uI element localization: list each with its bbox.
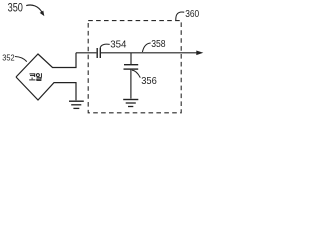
hangul text 코일 inside coil block bbox=[29, 73, 41, 80]
output arrowhead (node 358 line) bbox=[196, 51, 203, 56]
svg-text:350: 350 bbox=[8, 0, 24, 14]
coil block 352 (diamond body) bbox=[16, 53, 76, 101]
leader for 360 bbox=[176, 12, 184, 20]
wire from capacitor 356 to ground bbox=[130, 70, 132, 99]
arrow for 350 bbox=[26, 5, 42, 12]
svg-text:354: 354 bbox=[110, 39, 127, 50]
capacitor 356 bbox=[124, 65, 139, 69]
leader for 356 bbox=[132, 70, 140, 78]
svg-text:356: 356 bbox=[141, 75, 157, 87]
ground (left, under coil block) bbox=[69, 101, 84, 108]
ground (right, under capacitor 356) bbox=[123, 100, 138, 107]
shunt branch wire to capacitor 356 bbox=[130, 53, 132, 64]
leader for 354 bbox=[100, 44, 110, 48]
wire from capacitor 354 to output arrow bbox=[101, 52, 197, 54]
capacitor 354 bbox=[97, 48, 100, 58]
svg-text:360: 360 bbox=[185, 9, 199, 20]
leader for 352 bbox=[15, 57, 27, 62]
dashed box 360 bbox=[88, 21, 181, 113]
wire from coil step to capacitor 354 bbox=[76, 52, 96, 54]
svg-text:358: 358 bbox=[151, 39, 166, 50]
leader for 358 bbox=[142, 43, 150, 52]
svg-text:352: 352 bbox=[2, 52, 15, 62]
